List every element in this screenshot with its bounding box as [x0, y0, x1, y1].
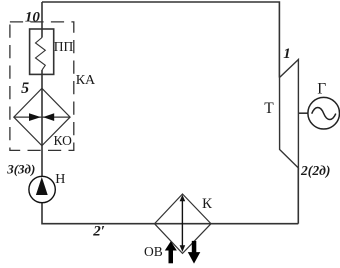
- svg-text:2′: 2′: [92, 224, 105, 240]
- svg-text:ПП: ПП: [54, 39, 74, 54]
- svg-text:Г: Г: [317, 81, 326, 98]
- svg-text:1: 1: [283, 46, 291, 62]
- svg-text:3(3д): 3(3д): [6, 161, 35, 176]
- svg-text:К: К: [202, 196, 213, 212]
- svg-text:10: 10: [25, 9, 41, 25]
- svg-text:ОВ: ОВ: [144, 244, 163, 259]
- svg-text:КА: КА: [76, 73, 96, 88]
- svg-text:5: 5: [21, 80, 29, 97]
- svg-text:2(2д): 2(2д): [300, 163, 330, 179]
- svg-text:Н: Н: [55, 172, 65, 187]
- svg-text:Т: Т: [264, 100, 274, 117]
- svg-text:КО: КО: [54, 133, 73, 148]
